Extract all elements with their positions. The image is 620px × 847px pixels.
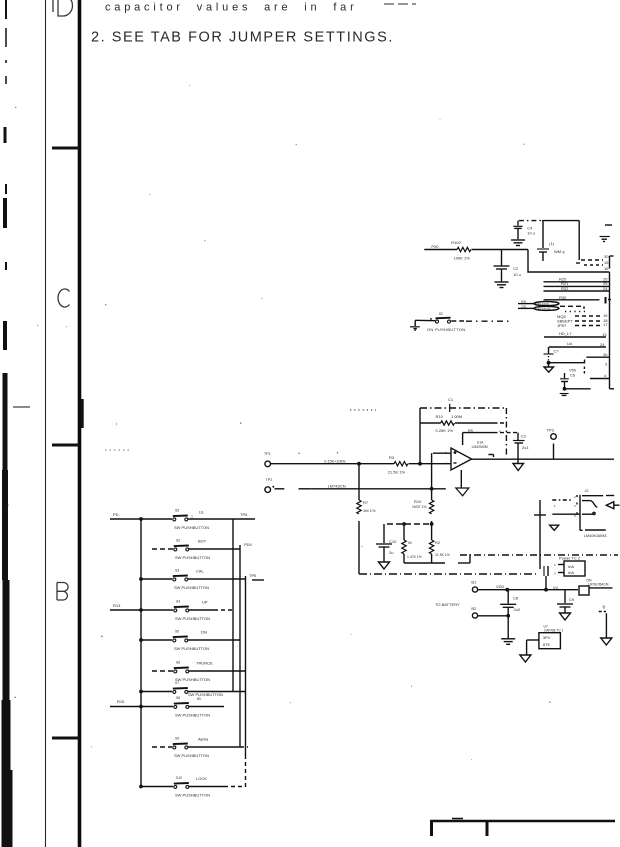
svg-text:C9: C9: [569, 597, 575, 602]
svg-text:C6: C6: [570, 372, 576, 377]
svg-text:TP3: TP3: [547, 428, 555, 433]
svg-text:DN: DN: [201, 630, 207, 635]
svg-text:BOT: BOT: [198, 539, 207, 544]
svg-text:IB: IB: [197, 696, 201, 701]
svg-text:LM741iCN: LM741iCN: [328, 484, 346, 488]
svg-text:R5: R5: [468, 428, 474, 433]
svg-text:2u1: 2u1: [522, 445, 529, 450]
svg-text:SW PUSHBUTTON: SW PUSHBUTTON: [175, 555, 210, 560]
svg-text:2. SEE TAB FOR JUMPER SET: 2. SEE TAB FOR JUMPER SETTINGS.: [91, 30, 394, 46]
svg-text:PD.: PD.: [113, 512, 120, 517]
svg-text:LM4250IM: LM4250IM: [472, 445, 488, 449]
svg-text:1M 1%: 1M 1%: [363, 508, 376, 513]
svg-text:16: 16: [604, 266, 609, 271]
svg-text:SW PUSHBUTTON: SW PUSHBUTTON: [175, 677, 210, 682]
svg-text:Power TC 2: Power TC 2: [559, 556, 581, 561]
svg-text:capacitor values are in fa: capacitor values are in far: [105, 2, 358, 14]
svg-text:S7: S7: [175, 681, 179, 685]
svg-text:ON PUSHBUTTON: ON PUSHBUTTON: [427, 327, 466, 332]
svg-text:S9: S9: [175, 737, 179, 741]
svg-text:7: 7: [554, 505, 556, 509]
svg-text:S2: S2: [439, 312, 443, 316]
svg-text:SW PUSHBUTTON: SW PUSHBUTTON: [175, 616, 210, 621]
svg-text:10 u: 10 u: [513, 272, 521, 277]
svg-text:C10: C10: [389, 539, 397, 544]
svg-text:3PV: 3PV: [543, 635, 551, 640]
svg-text:TP2: TP2: [266, 478, 273, 482]
svg-text:S5: S5: [175, 509, 179, 513]
svg-text:InA: InA: [568, 564, 574, 569]
svg-text:TP1: TP1: [264, 452, 271, 456]
svg-text:TP5: TP5: [249, 573, 257, 578]
svg-text:C1: C1: [448, 397, 454, 402]
svg-text:S3: S3: [175, 569, 179, 573]
svg-text:0.25K 1%: 0.25K 1%: [436, 428, 454, 433]
svg-text:(1): (1): [549, 241, 555, 246]
svg-text:0.15K+10Mx: 0.15K+10Mx: [324, 460, 346, 464]
svg-text:TP6: TP6: [240, 512, 248, 517]
svg-text:S2: S2: [176, 539, 180, 543]
svg-text:2u: 2u: [389, 550, 393, 555]
svg-text:R13: R13: [113, 603, 121, 608]
svg-text:R3: R3: [389, 455, 395, 460]
svg-text:B2: B2: [471, 606, 477, 611]
svg-text:V4: V4: [553, 585, 559, 590]
svg-text:LE: LE: [199, 510, 204, 515]
svg-text:C7: C7: [554, 348, 560, 353]
svg-text:LOCK: LOCK: [196, 776, 207, 781]
svg-text:SW PUSHBUTTON: SW PUSHBUTTON: [175, 793, 210, 798]
svg-text:UP: UP: [202, 600, 208, 605]
svg-text:LM4040AIM3: LM4040AIM3: [584, 534, 607, 538]
svg-text:PD4: PD4: [244, 542, 253, 547]
svg-text:21.5K 1%: 21.5K 1%: [435, 553, 450, 557]
svg-text:W: W: [408, 540, 412, 545]
svg-text:R7: R7: [363, 500, 369, 505]
svg-text:C30 100uF: C30 100uF: [536, 307, 551, 311]
svg-text:8TK: 8TK: [543, 642, 551, 647]
svg-text:24: 24: [603, 286, 608, 291]
svg-text:LM78L05ACM: LM78L05ACM: [588, 583, 609, 587]
svg-text:2b: 2b: [603, 352, 608, 357]
svg-text:R30 100K: R30 100K: [536, 302, 549, 306]
svg-text:CAL: CAL: [196, 569, 205, 574]
svg-text:R22: R22: [561, 286, 569, 291]
svg-text:SW PUSHBUTTON: SW PUSHBUTTON: [175, 713, 210, 718]
svg-text:SW PUSHBUTTON: SW PUSHBUTTON: [174, 753, 209, 758]
svg-text:15: 15: [604, 260, 609, 265]
svg-text:B1: B1: [471, 580, 477, 585]
svg-text:100K 1%: 100K 1%: [454, 256, 471, 261]
svg-text:S10: S10: [176, 776, 182, 780]
svg-text:R30: R30: [521, 300, 527, 304]
svg-text:1M3T 1%: 1M3T 1%: [412, 505, 426, 509]
svg-text:U4: U4: [567, 341, 573, 346]
svg-text:R10: R10: [436, 414, 444, 419]
svg-text:InA: InA: [568, 570, 574, 575]
svg-text:2u2: 2u2: [514, 607, 521, 612]
svg-text:SW PUSHBUTTON: SW PUSHBUTTON: [174, 646, 209, 651]
svg-text:24: 24: [600, 342, 605, 347]
svg-text:S4: S4: [176, 600, 180, 604]
svg-text:1.47K 1%: 1.47K 1%: [407, 555, 422, 559]
svg-text:10 u: 10 u: [527, 231, 535, 236]
svg-text:HD_L7: HD_L7: [559, 331, 572, 336]
svg-text:13: 13: [602, 332, 607, 337]
svg-text:21.5K 1%: 21.5K 1%: [388, 470, 406, 475]
svg-text:VDD: VDD: [496, 584, 505, 589]
svg-text:SW PUSHBUTTON: SW PUSHBUTTON: [188, 692, 223, 697]
svg-text:JP5T: JP5T: [557, 323, 567, 328]
svg-text:C3: C3: [521, 434, 527, 439]
svg-text:U1A: U1A: [477, 441, 484, 445]
svg-text:30: 30: [604, 254, 609, 259]
svg-text:S6: S6: [176, 661, 180, 665]
svg-text:R100: R100: [451, 240, 461, 245]
svg-text:C8: C8: [513, 596, 519, 601]
svg-text:CAP/BE TC 1: CAP/BE TC 1: [544, 629, 564, 633]
svg-text:C30: C30: [521, 305, 527, 309]
svg-text:17: 17: [603, 322, 608, 327]
svg-text:SW PUSHBUTTON: SW PUSHBUTTON: [174, 585, 209, 590]
svg-text:SW PUSHBUTTON: SW PUSHBUTTON: [174, 525, 209, 530]
svg-text:C2: C2: [513, 266, 519, 271]
svg-text:S5: S5: [175, 630, 179, 634]
svg-text:WM q: WM q: [554, 249, 564, 254]
svg-text:1.00M: 1.00M: [451, 414, 462, 419]
svg-text:S8: S8: [176, 696, 180, 700]
svg-text:R30: R30: [559, 295, 567, 300]
svg-text:TO BATTERY: TO BATTERY: [435, 602, 460, 607]
svg-text:P20: P20: [431, 244, 439, 249]
svg-text:Alpha: Alpha: [198, 737, 209, 742]
svg-text:R10: R10: [414, 499, 422, 504]
svg-text:TRUNCE: TRUNCE: [196, 661, 213, 666]
svg-text:R15: R15: [117, 699, 125, 704]
svg-text:R2: R2: [435, 540, 441, 545]
svg-text:J2: J2: [585, 489, 589, 493]
